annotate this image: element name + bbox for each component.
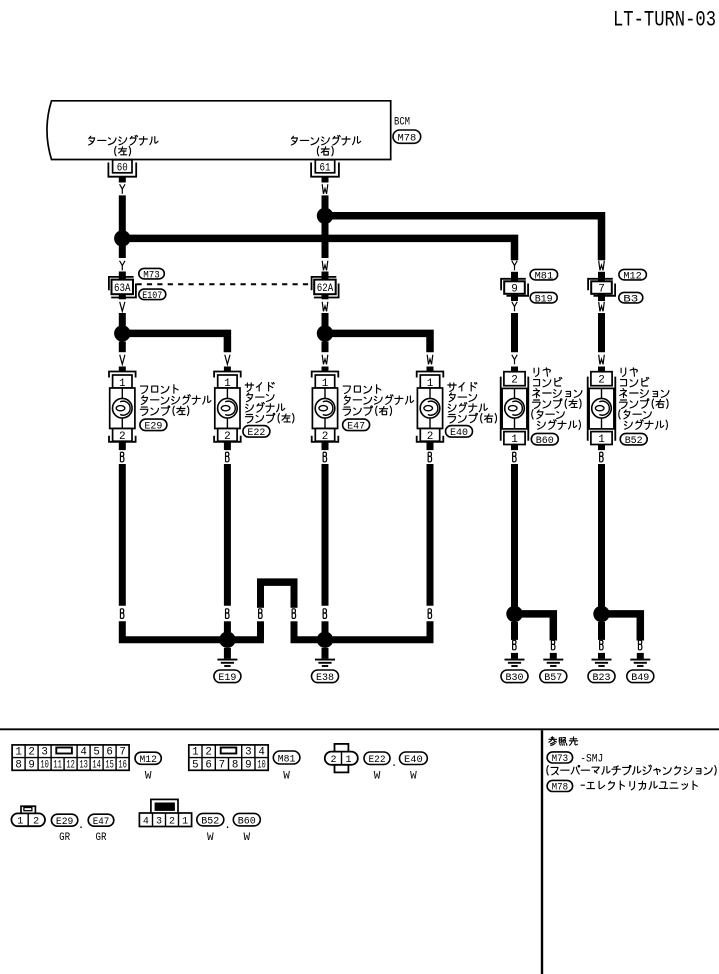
svg-text:B57: B57 (544, 672, 562, 684)
wire stub into lamp (119, 367, 126, 372)
svg-text:9: 9 (245, 759, 251, 771)
svg-text:2: 2 (169, 817, 175, 828)
ground B23 (588, 660, 615, 684)
wire color B above ground (513, 640, 517, 650)
svg-text:8: 8 (232, 759, 238, 771)
svg-text:W: W (283, 771, 290, 783)
svg-text:B49: B49 (631, 672, 649, 684)
wire branch to B57 (515, 614, 554, 641)
wire color W above lamp (427, 355, 433, 365)
wire stub below lamp (224, 442, 231, 450)
wire color B below lamp (513, 452, 517, 462)
wire B col2 resume (224, 621, 231, 636)
jog riser left upper (257, 582, 264, 608)
svg-text:W: W (145, 771, 152, 783)
svg-text:W: W (410, 771, 417, 783)
wire stub to ground (598, 653, 605, 659)
jog top bridge (257, 578, 298, 586)
wire B long run (322, 464, 329, 606)
wire B long run (427, 464, 434, 606)
svg-text:12: 12 (66, 759, 75, 771)
svg-text:GR: GR (59, 832, 70, 844)
connector 62A (312, 277, 339, 298)
connector M12 oval (619, 269, 647, 282)
wire stub pin 60 (119, 177, 126, 183)
lamp front turn signal left E29 (109, 372, 136, 443)
svg-text:W: W (374, 771, 381, 783)
svg-text:1: 1 (192, 747, 198, 759)
svg-text:W: W (243, 832, 250, 844)
svg-text:B3: B3 (623, 293, 638, 305)
svg-text:M81: M81 (535, 270, 554, 282)
title LT-TURN-03 (613, 8, 716, 33)
legend connector B52/B60 symbol (139, 799, 191, 827)
svg-text:3: 3 (41, 747, 47, 759)
lamp side turn signal right E40 (417, 372, 444, 443)
svg-text:E38: E38 (316, 672, 334, 684)
wire stub into 63A (119, 272, 126, 280)
legend SMJ note (547, 765, 716, 775)
jog riser left (257, 621, 264, 639)
wire stub into conn 7 (598, 272, 605, 281)
wire color W above lamp (599, 355, 605, 365)
svg-text:E107: E107 (142, 290, 162, 302)
svg-text:6: 6 (106, 747, 112, 759)
wire color B above bus (292, 609, 296, 619)
wire stub pin 61 (322, 177, 329, 183)
wire stub to ground (550, 653, 557, 659)
svg-text:2: 2 (33, 817, 39, 828)
svg-text:M73: M73 (143, 269, 160, 281)
wire stub into lamp (224, 367, 231, 372)
connector 9 (M81/B19) (501, 279, 528, 296)
wire color B above bus (428, 609, 432, 619)
lamp side turn signal left E22 (214, 372, 241, 443)
wire color B below lamp (323, 452, 327, 462)
connector B52 oval (620, 433, 647, 446)
legend reference heading (549, 737, 578, 746)
svg-text:1: 1 (598, 434, 605, 446)
svg-text:M78: M78 (552, 782, 569, 794)
wire color B above ground (638, 640, 642, 650)
wire color B above bus (323, 609, 327, 619)
svg-text:1: 1 (17, 817, 23, 828)
wire color W above 62A (322, 261, 328, 271)
svg-text:5: 5 (93, 747, 99, 759)
svg-text:E47: E47 (93, 816, 110, 828)
label side turn signal lamp (left) (245, 382, 294, 423)
legend E22 oval (364, 752, 390, 783)
svg-text:4: 4 (80, 747, 86, 759)
svg-text:1: 1 (345, 755, 351, 766)
svg-text:E19: E19 (218, 672, 236, 684)
svg-text:M81: M81 (278, 753, 296, 765)
wire color W above lamp (322, 355, 328, 365)
wire B down to B30 (511, 622, 518, 640)
wire color W below 62A (322, 302, 328, 312)
wire stub into conn 9 (511, 272, 518, 281)
legend M12 oval (135, 752, 161, 782)
connector B60 oval (531, 433, 558, 446)
svg-text:E22: E22 (247, 427, 265, 439)
junction node W branch (317, 208, 333, 224)
ground B49 (627, 660, 654, 684)
wire Y from pin 60 (119, 195, 126, 238)
connector B19 oval (530, 292, 557, 305)
svg-text:GR: GR (96, 832, 107, 844)
svg-text:BCM: BCM (394, 116, 410, 128)
wire color B below lamp (226, 452, 230, 462)
wire stub into lamp (427, 367, 434, 372)
svg-text:.: . (224, 820, 231, 832)
wire color Y above conn 9 (512, 261, 517, 271)
label rear combination lamp (left) (532, 368, 582, 430)
connector 63A (109, 277, 136, 298)
connector M81 oval (530, 269, 558, 282)
wire color V below 63A (120, 302, 125, 312)
wire branch to B49 (602, 614, 641, 641)
svg-text:E40: E40 (404, 754, 423, 766)
svg-text:M12: M12 (623, 270, 642, 282)
ground bus left segment (122, 621, 264, 639)
label front turn signal lamp (left) (140, 385, 211, 416)
legend connector E22/E40 symbol (325, 744, 358, 773)
ground E38 (312, 660, 339, 684)
wire color B above ground (551, 640, 555, 650)
wire color B below lamp (428, 452, 432, 462)
svg-text:7: 7 (219, 759, 225, 771)
wire stub into lamp (511, 367, 518, 372)
svg-text:E29: E29 (56, 816, 73, 828)
legend B60 oval (233, 813, 260, 844)
connector E47 oval (343, 419, 370, 433)
wire stub to ground E19 (224, 648, 231, 659)
legend connector E29/E47 symbol (11, 806, 45, 827)
svg-text:M73: M73 (552, 753, 569, 765)
svg-text:E47: E47 (347, 421, 365, 433)
ground E19 (214, 660, 241, 684)
svg-text:B30: B30 (506, 672, 524, 684)
svg-text:W: W (207, 832, 214, 844)
wire B long run (598, 464, 605, 614)
legend E29 oval (51, 814, 77, 844)
svg-text:M78: M78 (398, 132, 417, 144)
wire stub to ground E38 (322, 648, 329, 659)
svg-text:B60: B60 (536, 435, 554, 447)
label BCM (394, 116, 410, 128)
BCM control module box (47, 101, 391, 160)
svg-text:2: 2 (28, 747, 34, 759)
svg-text:9: 9 (28, 759, 34, 771)
legend separator rule (0, 728, 719, 730)
SMJ boundary dashed line (137, 283, 314, 285)
wire stub to ground (637, 653, 644, 659)
svg-text:E40: E40 (450, 427, 468, 439)
wire B down to B23 (598, 622, 605, 640)
wire Y branch to rear-left column (122, 238, 514, 260)
wire stub below 63A (119, 294, 126, 299)
svg-text:-SMJ: -SMJ (580, 754, 603, 766)
wire stub into lamp (598, 367, 605, 372)
svg-text:2: 2 (330, 755, 336, 766)
wire B col3 resume (322, 621, 329, 636)
svg-text:9: 9 (511, 283, 518, 295)
svg-text:6: 6 (205, 759, 211, 771)
wire color V above lamp (225, 355, 230, 365)
wire B long run (511, 464, 518, 614)
svg-text:2: 2 (598, 375, 605, 387)
wire B long run (119, 464, 126, 606)
svg-text:1: 1 (511, 434, 518, 446)
wire stub below lamp (119, 442, 126, 450)
wire stub to ground (511, 653, 518, 659)
jog riser right upper (291, 582, 298, 608)
connector E29 oval (140, 419, 167, 433)
wire V to junction (119, 313, 126, 333)
legend vertical divider (541, 730, 543, 974)
svg-text:3: 3 (156, 817, 162, 828)
connector M73 oval (139, 268, 165, 281)
svg-text:4: 4 (143, 817, 149, 828)
svg-text:13: 13 (79, 759, 88, 771)
legend E40 oval (400, 752, 428, 783)
wire stub into 62A (322, 272, 329, 280)
svg-text:B60: B60 (238, 815, 256, 827)
svg-text:15: 15 (105, 759, 114, 771)
ground B30 (501, 660, 528, 684)
legend E47 oval (88, 814, 114, 844)
junction node W branch2 (317, 325, 333, 341)
junction node ground E19 (219, 632, 235, 648)
svg-text:.: . (78, 820, 85, 832)
svg-text:1: 1 (182, 817, 188, 828)
svg-text:8: 8 (15, 759, 21, 771)
svg-text:B23: B23 (593, 672, 611, 684)
wire color B below lamp (120, 452, 124, 462)
wire V branch to side lamp left (122, 333, 227, 352)
svg-text:E29: E29 (144, 421, 162, 433)
junction node ground E38 (317, 632, 333, 648)
junction node Y branch (114, 230, 130, 246)
BCM pin 60 (108, 160, 136, 177)
label turn signal (left) (89, 135, 158, 156)
wire W continues down (322, 216, 329, 258)
BCM pin 61 (311, 160, 339, 177)
wire stub below 62A (322, 294, 329, 299)
lamp front turn signal right E47 (312, 372, 339, 443)
wire color W above conn 7 (599, 261, 605, 271)
wire W from pin 61 (322, 195, 329, 215)
lamp rear combination left B60 (501, 372, 529, 446)
connector E40 oval (446, 426, 473, 440)
connector B3 oval (619, 292, 643, 305)
wire stub below lamp (511, 445, 518, 451)
wire Y down col5 (511, 313, 518, 352)
legend connector M81 pin grid (189, 745, 268, 771)
wire V down col1 (119, 342, 126, 353)
label turn signal (right) (291, 135, 360, 156)
wire color Y above lamp (512, 355, 517, 365)
wire stub below lamp (427, 442, 434, 450)
wire color B above ground (600, 640, 604, 650)
wire W to junction (322, 313, 329, 333)
svg-text:60: 60 (117, 163, 128, 175)
svg-text:5: 5 (192, 759, 198, 771)
svg-text:10: 10 (257, 759, 266, 771)
wire W down col3 (322, 342, 329, 353)
svg-text:11: 11 (53, 759, 62, 771)
svg-text:2: 2 (205, 747, 211, 759)
wire W down col6 (598, 313, 605, 352)
legend M73 = SMJ (580, 754, 603, 766)
junction node rear-left ground (506, 606, 522, 622)
connector E107 oval (139, 289, 166, 302)
svg-text:B52: B52 (625, 435, 643, 447)
svg-text:62A: 62A (317, 283, 334, 295)
legend M73 oval (547, 752, 573, 765)
wire W branch to side lamp right (325, 333, 430, 352)
jog riser right (291, 621, 298, 639)
legend connector M12 pin grid (12, 745, 129, 771)
wire color Y above 63A (120, 261, 125, 271)
wire color B above bus (226, 609, 230, 619)
wire Y down to connector 63A (119, 246, 126, 258)
wire color Y (120, 184, 125, 194)
wire stub below lamp (322, 442, 329, 450)
wire color W (322, 184, 328, 194)
ground bus right segment (291, 621, 431, 639)
junction node V branch (114, 325, 130, 341)
svg-text:LT-TURN-03: LT-TURN-03 (613, 8, 716, 33)
svg-text:14: 14 (92, 759, 101, 771)
wire stub below conn 7 (598, 294, 605, 301)
svg-text:B52: B52 (201, 815, 219, 827)
svg-text:10: 10 (40, 759, 49, 771)
svg-text:.: . (391, 758, 398, 770)
connector E22 oval (243, 426, 270, 440)
wire color W below conn 7 (599, 302, 605, 312)
connector 7 (M12/B3) (588, 279, 615, 296)
lamp rear combination right B52 (588, 372, 616, 446)
wire W branch to rear-right column (325, 216, 602, 260)
svg-text:61: 61 (320, 163, 331, 175)
svg-text:E22: E22 (369, 754, 386, 766)
legend M78 = electrical unit (581, 781, 697, 790)
wire stub below lamp (598, 445, 605, 451)
ground B57 (540, 660, 567, 684)
svg-text:1: 1 (15, 747, 21, 759)
wire color Y below conn 9 (512, 302, 517, 312)
svg-text:3: 3 (245, 747, 251, 759)
svg-text:16: 16 (118, 759, 127, 771)
junction node rear-right ground (593, 606, 609, 622)
svg-text:7: 7 (119, 747, 125, 759)
wire color B above bus (259, 609, 263, 619)
wire B long run (224, 464, 231, 606)
connector M78 oval (393, 130, 421, 144)
wire stub below conn 9 (511, 294, 518, 301)
label rear combination lamp (right) (619, 368, 669, 430)
wire color B below lamp (600, 452, 604, 462)
svg-text:M12: M12 (140, 754, 157, 766)
wire stub into lamp (322, 367, 329, 372)
svg-text:7: 7 (598, 283, 605, 295)
label front turn signal lamp (right) (343, 385, 414, 416)
legend B52 oval (197, 813, 224, 844)
label side turn signal lamp (right) (448, 382, 497, 423)
svg-text:2: 2 (511, 375, 518, 387)
wire color V above lamp (120, 355, 125, 365)
wire color B above bus (120, 609, 124, 619)
svg-text:4: 4 (258, 747, 264, 759)
legend M81 oval (273, 751, 300, 783)
legend M78 oval (547, 780, 573, 793)
svg-text:63A: 63A (114, 283, 131, 295)
svg-text:B19: B19 (535, 293, 553, 305)
